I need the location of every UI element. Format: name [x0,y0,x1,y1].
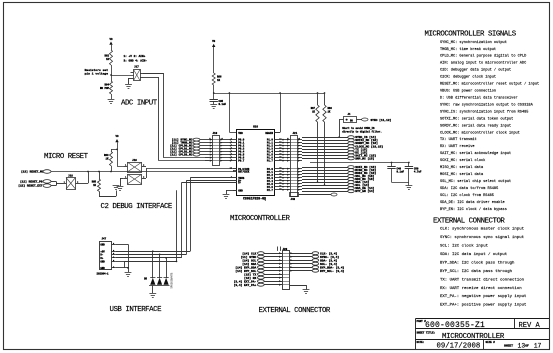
svg-text:U26: U26 [253,125,258,128]
svg-text:SYNC_MC: synchronization outpu: SYNC_MC: synchronization output [440,40,507,45]
svg-text:EXT_PA-: negative power supply: EXT_PA-: negative power supply input [440,294,526,299]
svg-text:SYNC: raw synchronization outp: SYNC: raw synchronization output to CS33… [440,102,534,107]
svg-text:GND: GND [100,267,105,270]
svg-text:P2.7: P2.7 [267,189,274,192]
svg-text:DATE:: DATE: [417,341,425,344]
svg-text:OF: OF [525,345,529,348]
svg-text:C8051F320-GQ: C8051F320-GQ [243,196,266,200]
svg-text:[11] SYNC: [11] SYNC [241,255,257,259]
svg-text:600-00355-Z1: 600-00355-Z1 [425,321,485,330]
svg-text:J47: J47 [102,238,107,241]
svg-text:GND: GND [100,261,105,264]
svg-text:SCL: I2C clock from RS485: SCL: I2C clock from RS485 [440,193,494,198]
svg-text:MICROCONTROLLER SIGNALS: MICROCONTROLLER SIGNALS [425,31,517,39]
svg-text:SCKI_MC: serial clock: SCKI_MC: serial clock [440,158,485,163]
svg-text:13: 13 [518,342,526,349]
svg-text:[14] CLK: [14] CLK [242,251,256,255]
svg-text:17: 17 [534,342,542,349]
svg-text:V3: V3 [109,38,113,41]
svg-text:MICROCONTROLLER: MICROCONTROLLER [230,215,291,223]
svg-text:VBUS: USB power connection: VBUS: USB power connection [440,89,496,94]
svg-text:RST/C2CK: RST/C2CK [238,170,250,173]
svg-text:GND: GND [100,243,105,246]
svg-text:SDA: I2C data to/from RS485: SDA: I2C data to/from RS485 [440,186,498,191]
svg-text:SMP_MC [15]: SMP_MC [15] [355,156,374,160]
svg-text:[14] SDA: [14] SDA [242,262,256,266]
svg-text:MICROCONTROLLER: MICROCONTROLLER [442,333,505,341]
svg-text:SAIT_MC: serial acknowledge in: SAIT_MC: serial acknowledge input [440,151,511,156]
svg-text:[14] BYP_SCL: [14] BYP_SCL [235,269,256,273]
svg-text:[14] SCL: [14] SCL [242,258,256,262]
svg-text:09/17/2008: 09/17/2008 [437,343,481,351]
svg-text:SDA- [3,4]: SDA- [3,4] [320,258,338,262]
svg-text:SYNC: synchronous sync signal: SYNC: synchronous sync signal input [440,235,524,240]
svg-text:SCL: I2C clock input: SCL: I2C clock input [440,244,488,249]
svg-text:pin 1 voltage: pin 1 voltage [85,72,109,76]
svg-text:D-: D- [238,182,242,185]
svg-text:SYNC- [3,4]: SYNC- [3,4] [320,255,339,259]
svg-text:SORDY_MC: serial data ready in: SORDY_MC: serial data ready input [440,123,511,128]
svg-text:C2D: debugger data input / out: C2D: debugger data input / output [440,68,511,73]
svg-text:J48: J48 [291,198,296,201]
svg-text:EXTERNAL CONNECTOR: EXTERNAL CONNECTOR [433,217,505,225]
svg-text:[3,4] EXT_PA+: [3,4] EXT_PA+ [234,283,257,287]
svg-text:SDA: I2C data input / output: SDA: I2C data input / output [440,252,507,257]
svg-text:J10: J10 [213,132,218,135]
svg-text:AIN: analog input to microcont: AIN: analog input to microcontroller ADC [440,61,526,66]
svg-text:CLK: synchronous master clock: CLK: synchronous master clock input [440,227,524,232]
svg-text:NO POP: NO POP [100,87,110,90]
svg-text:SDA_DE: I2C data driver enable: SDA_DE: I2C data driver enable [440,200,505,205]
svg-text:RX: UART receive direct connec: RX: UART receive direct connection [440,286,522,291]
svg-text:SYNC_IS: synchronization input: SYNC_IS: synchronization input from RS48… [440,109,528,114]
svg-text:BYP_EN [14]: BYP_EN [14] [355,189,374,193]
svg-text:[14] BYP_SDA: [14] BYP_SDA [235,265,256,269]
svg-text:1K: 1K [106,58,110,61]
svg-text:[12] RESET_PB: [12] RESET_PB [20,180,43,184]
svg-text:292304-1: 292304-1 [97,273,110,276]
svg-text:[15] TX: [15] TX [244,272,256,276]
svg-text:BYP_SDA- [3,4]: BYP_SDA- [3,4] [320,265,345,269]
svg-text:P1.7: P1.7 [267,160,274,163]
svg-text:C2CK: debugger clock input: C2CK: debugger clock input [440,75,496,80]
svg-text:BYP_SCL: I2C data pass through: BYP_SCL: I2C data pass through [440,269,513,274]
svg-text:RESET_MC: microcontroller rese: RESET_MC: microcontroller reset output /… [440,82,539,87]
svg-text:TMGB_MC: time break output: TMGB_MC: time break output [440,47,496,52]
svg-text:1K: 1K [217,79,221,82]
svg-text:GND: GND [238,189,243,192]
svg-text:J16: J16 [132,159,137,162]
svg-text:SOTXI_MC: serial data token ou: SOTXI_MC: serial data token output [440,116,513,121]
svg-text:EXT_PA+: positive power supply: EXT_PA+: positive power supply input [440,303,526,308]
svg-text:1K: 1K [105,158,109,161]
svg-text:[12] RESET_EXT: [12] RESET_EXT [18,184,43,188]
svg-text:[13] RESET_MC: [13] RESET_MC [21,170,44,174]
svg-text:SHEET TITLE:: SHEET TITLE: [417,331,436,334]
svg-text:USB INTERFACE: USB INTERFACE [110,306,163,314]
svg-text:J17: J17 [134,66,139,69]
svg-text:TX: UART transmit: TX: UART transmit [440,137,477,142]
svg-text:D: USB differential data trans: D: USB differential data transceiver [440,95,518,100]
svg-text:[11] CPLD3_MC: [11] CPLD3_MC [170,153,193,157]
svg-text:0.1uF: 0.1uF [397,171,405,174]
svg-text:J21: J21 [293,132,298,135]
svg-text:directly to digital filter.: directly to digital filter. [342,131,382,134]
svg-text:BYP_SDA: I2C clock pass throug: BYP_SDA: I2C clock pass through [440,260,515,265]
svg-text:3: GND 4: AIN-: 3: GND 4: AIN- [124,59,148,62]
svg-text:P0.7: P0.7 [238,160,245,163]
svg-text:SYNC [11,12]: SYNC [11,12] [371,118,392,122]
svg-text:MISO_MC: serial data: MISO_MC: serial data [440,165,484,170]
svg-text:SSL_MC: serial chip select out: SSL_MC: serial chip select output [440,179,511,184]
svg-text:MICRO RESET: MICRO RESET [44,153,89,161]
svg-text:SIZE #: SIZE # [486,341,496,344]
svg-text:Resistors set: Resistors set [85,68,109,72]
svg-text:J18: J18 [68,175,73,178]
svg-text:REGIN: REGIN [265,132,273,135]
svg-text:RX: UART receive: RX: UART receive [440,144,475,149]
svg-text:BYP_SCL- [3,4]: BYP_SCL- [3,4] [320,269,345,273]
svg-text:SP0503BAHTG: SP0503BAHTG [171,272,174,288]
svg-text:TX: UART transmit direct conne: TX: UART transmit direct connection [440,277,525,282]
svg-text:ADC INPUT: ADC INPUT [121,99,158,107]
svg-text:1: +V 2: AIN+: 1: +V 2: AIN+ [124,55,146,58]
svg-text:CPLD_MC: General purpose digit: CPLD_MC: General purpose digital to CPLD [440,54,526,59]
svg-text:0.1uF: 0.1uF [219,103,227,106]
svg-text:CLOCK_MC: microcontroller cloc: CLOCK_MC: microcontroller clock input [440,130,520,135]
svg-text:CLK- [3,4]: CLK- [3,4] [320,251,338,255]
svg-text:VDD: VDD [238,132,243,135]
svg-text:V3: V3 [115,135,119,138]
svg-text:4.7uF: 4.7uF [414,171,422,174]
svg-text:SHEET: SHEET [504,345,513,348]
svg-text:[15] RX: [15] RX [244,276,256,280]
svg-text:BYP_EN: I2C clock / data bypas: BYP_EN: I2C clock / data bypass [440,207,507,212]
svg-text:SCL- [3,4]: SCL- [3,4] [320,262,338,266]
svg-text:V3: V3 [212,40,216,43]
svg-text:MOSI_MC: serial data: MOSI_MC: serial data [440,172,484,177]
svg-text:[3,4] EXT_PA-: [3,4] EXT_PA- [234,279,257,283]
svg-text:REV A: REV A [519,322,541,330]
svg-text:EXTERNAL CONNECTOR: EXTERNAL CONNECTOR [259,307,331,315]
svg-text:C2 DEBUG INTERFACE: C2 DEBUG INTERFACE [101,203,173,211]
